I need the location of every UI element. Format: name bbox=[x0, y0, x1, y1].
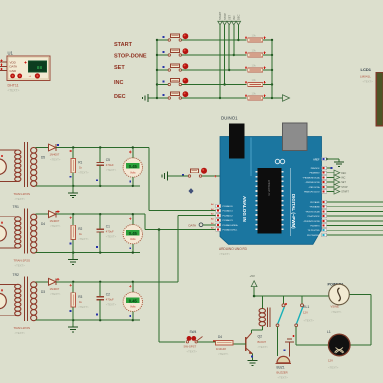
svg-text:TR2: TR2 bbox=[13, 273, 20, 277]
svg-text:D4: D4 bbox=[41, 222, 45, 226]
svg-text:<TEXT>: <TEXT> bbox=[187, 350, 198, 354]
svg-text:DEC: DEC bbox=[237, 14, 241, 20]
svg-text:1N4007: 1N4007 bbox=[50, 219, 60, 223]
svg-text:Volts: Volts bbox=[130, 237, 136, 241]
svg-text:<TEXT>: <TEXT> bbox=[331, 310, 342, 314]
svg-text:DEC: DEC bbox=[341, 172, 346, 175]
svg-text:<TEXT>: <TEXT> bbox=[15, 331, 26, 335]
svg-text:~PB3/MOSI/OC2A: ~PB3/MOSI/OC2A bbox=[302, 176, 320, 179]
svg-text:10k: 10k bbox=[252, 64, 257, 68]
svg-text:<TEXT>: <TEXT> bbox=[328, 366, 339, 370]
svg-text:Q2: Q2 bbox=[258, 335, 263, 339]
svg-text:0.45: 0.45 bbox=[129, 231, 138, 236]
svg-text:88: 88 bbox=[37, 65, 43, 71]
svg-text:D4: D4 bbox=[218, 335, 222, 339]
svg-text:0.45: 0.45 bbox=[129, 164, 138, 169]
svg-text:SET: SET bbox=[227, 15, 231, 20]
svg-text:~PD6/AIN0: ~PD6/AIN0 bbox=[309, 206, 320, 209]
svg-text:R3: R3 bbox=[78, 295, 82, 299]
svg-text:D3: D3 bbox=[41, 290, 45, 294]
svg-text:C2: C2 bbox=[106, 292, 110, 296]
svg-text:~PB1/OC1A: ~PB1/OC1A bbox=[308, 186, 320, 189]
svg-text:SW4: SW4 bbox=[190, 330, 197, 334]
svg-text:INC: INC bbox=[232, 15, 236, 20]
svg-text:<TEXT>: <TEXT> bbox=[218, 352, 229, 356]
svg-text:<TEXT>: <TEXT> bbox=[219, 252, 230, 256]
svg-text:C5: C5 bbox=[106, 158, 110, 162]
svg-text:PD7/AIN1: PD7/AIN1 bbox=[310, 201, 320, 204]
svg-text:10k: 10k bbox=[252, 49, 257, 53]
svg-text:470uF: 470uF bbox=[106, 163, 114, 167]
svg-text:PC0/ADC0: PC0/ADC0 bbox=[223, 205, 234, 208]
svg-text:R1: R1 bbox=[78, 161, 82, 165]
svg-text:<TEXT>: <TEXT> bbox=[50, 224, 61, 228]
svg-text:PC5/ADC5/SCL: PC5/ADC5/SCL bbox=[223, 229, 239, 232]
svg-text:<TEXT>: <TEXT> bbox=[106, 302, 117, 306]
svg-text:PB0/ICP1/CLKO: PB0/ICP1/CLKO bbox=[304, 192, 320, 194]
svg-text:<TEXT>: <TEXT> bbox=[278, 376, 289, 380]
svg-text:<TEXT>: <TEXT> bbox=[304, 319, 315, 323]
svg-text:LCD1: LCD1 bbox=[361, 67, 372, 72]
svg-text:<TEXT>: <TEXT> bbox=[15, 264, 26, 268]
svg-text:~PD3/INT1/OC2B: ~PD3/INT1/OC2B bbox=[303, 221, 320, 223]
svg-text:<TEXT>: <TEXT> bbox=[258, 345, 269, 349]
svg-text:R2: R2 bbox=[78, 227, 82, 231]
svg-text:START: START bbox=[114, 42, 133, 48]
svg-text:PB5/SCK: PB5/SCK bbox=[311, 168, 320, 170]
svg-text:STOP-DONE: STOP-DONE bbox=[114, 53, 147, 59]
svg-text:1N4007: 1N4007 bbox=[50, 287, 60, 291]
svg-text:PD2/INT0: PD2/INT0 bbox=[310, 226, 320, 228]
svg-text:10k: 10k bbox=[252, 92, 257, 96]
svg-text:BUZZER: BUZZER bbox=[277, 371, 288, 375]
svg-text:INC: INC bbox=[114, 80, 124, 86]
svg-text:ANALOG IN: ANALOG IN bbox=[242, 196, 247, 222]
svg-text:PD4/T0/XCK: PD4/T0/XCK bbox=[308, 216, 321, 218]
svg-text:AREF: AREF bbox=[313, 158, 320, 161]
svg-text:<TEXT>: <TEXT> bbox=[78, 237, 89, 241]
svg-text:DHT11: DHT11 bbox=[8, 84, 19, 88]
svg-text:L1: L1 bbox=[327, 330, 331, 334]
svg-text:SET: SET bbox=[114, 65, 125, 71]
svg-text:<TEXT>: <TEXT> bbox=[78, 171, 89, 175]
svg-text:<TEXT>: <TEXT> bbox=[363, 79, 374, 83]
svg-text:TRAN-2P2S: TRAN-2P2S bbox=[14, 192, 31, 196]
svg-text:Volts: Volts bbox=[130, 305, 136, 309]
svg-text:TX PD1/TXD: TX PD1/TXD bbox=[307, 230, 320, 232]
svg-text:RX PD0/RXD: RX PD0/RXD bbox=[307, 235, 320, 237]
svg-text:PC3/ADC3: PC3/ADC3 bbox=[223, 219, 234, 222]
svg-text:ARDUINO UNO R3: ARDUINO UNO R3 bbox=[219, 247, 247, 251]
svg-text:<TEXT>: <TEXT> bbox=[50, 292, 61, 296]
svg-text:DUINO1: DUINO1 bbox=[221, 116, 238, 121]
svg-text:TRAN-2P2S: TRAN-2P2S bbox=[14, 259, 31, 263]
svg-text:TRAN-2P2S: TRAN-2P2S bbox=[14, 326, 31, 330]
svg-text:C1: C1 bbox=[106, 225, 110, 229]
svg-text:DIGITAL (~PWM): DIGITAL (~PWM) bbox=[291, 194, 296, 229]
svg-text:+5V: +5V bbox=[250, 274, 255, 278]
svg-text:START: START bbox=[218, 11, 222, 20]
svg-text:PC4/ADC4/SDA: PC4/ADC4/SDA bbox=[223, 224, 239, 227]
svg-text:DEC: DEC bbox=[114, 94, 126, 100]
svg-text:10k: 10k bbox=[252, 78, 257, 82]
svg-text:LM041L: LM041L bbox=[360, 74, 371, 78]
svg-text:ATMEGA328P-PU: ATMEGA328P-PU bbox=[268, 180, 271, 196]
svg-text:PC1/ADC1: PC1/ADC1 bbox=[223, 210, 234, 213]
svg-text:<TEXT>: <TEXT> bbox=[50, 158, 61, 162]
svg-text:STOP: STOP bbox=[223, 13, 227, 20]
svg-text:TR1: TR1 bbox=[13, 205, 20, 209]
svg-text:<TEXT>: <TEXT> bbox=[106, 235, 117, 239]
svg-text:RL1: RL1 bbox=[303, 305, 309, 309]
svg-text:470uF: 470uF bbox=[106, 297, 114, 301]
svg-text:<TEXT>: <TEXT> bbox=[8, 89, 20, 93]
svg-text:PC2/ADC2: PC2/ADC2 bbox=[223, 214, 234, 217]
svg-text:0.45: 0.45 bbox=[129, 298, 138, 303]
svg-text:10k: 10k bbox=[252, 34, 257, 38]
svg-text:SET: SET bbox=[341, 181, 346, 184]
svg-text:470uF: 470uF bbox=[106, 230, 114, 234]
svg-text:INC: INC bbox=[341, 177, 345, 180]
svg-text:~PD5/T1/OC0B: ~PD5/T1/OC0B bbox=[305, 211, 320, 213]
svg-text:~PB2/SS/OC1B: ~PB2/SS/OC1B bbox=[305, 182, 320, 184]
svg-text:START: START bbox=[341, 191, 349, 194]
svg-text:D5: D5 bbox=[41, 156, 45, 160]
svg-text:SW-SPST: SW-SPST bbox=[184, 345, 197, 349]
svg-text:GND: GND bbox=[10, 69, 18, 73]
svg-text:1N4148: 1N4148 bbox=[216, 347, 226, 351]
svg-text:Volts: Volts bbox=[130, 170, 136, 174]
svg-text:1N4007: 1N4007 bbox=[50, 153, 60, 157]
svg-text:12V: 12V bbox=[303, 311, 308, 315]
svg-text:PB4/MISO: PB4/MISO bbox=[310, 173, 320, 175]
svg-text:BUZ1: BUZ1 bbox=[277, 366, 285, 370]
svg-text:12V: 12V bbox=[328, 359, 333, 363]
svg-text:STOP: STOP bbox=[341, 186, 348, 189]
svg-text:<TEXT>: <TEXT> bbox=[78, 305, 89, 309]
svg-text:<TEXT>: <TEXT> bbox=[106, 168, 117, 172]
svg-text:DATA: DATA bbox=[189, 223, 197, 227]
svg-text:U1: U1 bbox=[8, 51, 14, 56]
svg-text:BC637: BC637 bbox=[258, 340, 267, 344]
svg-text:<TEXT>: <TEXT> bbox=[15, 197, 26, 201]
svg-text:VSINE: VSINE bbox=[331, 305, 340, 309]
